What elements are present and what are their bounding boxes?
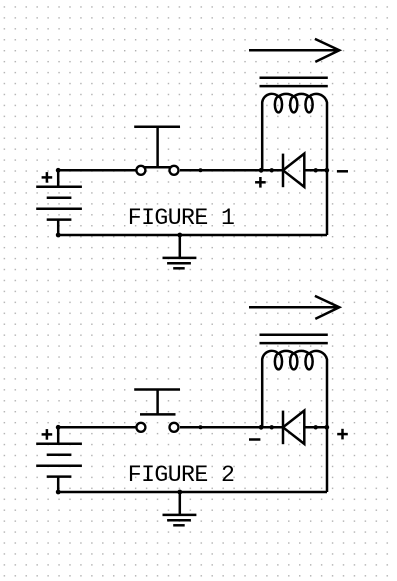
svg-text:FIGURE 2: FIGURE 2	[128, 462, 235, 488]
svg-text:FIGURE 1: FIGURE 1	[128, 205, 235, 231]
